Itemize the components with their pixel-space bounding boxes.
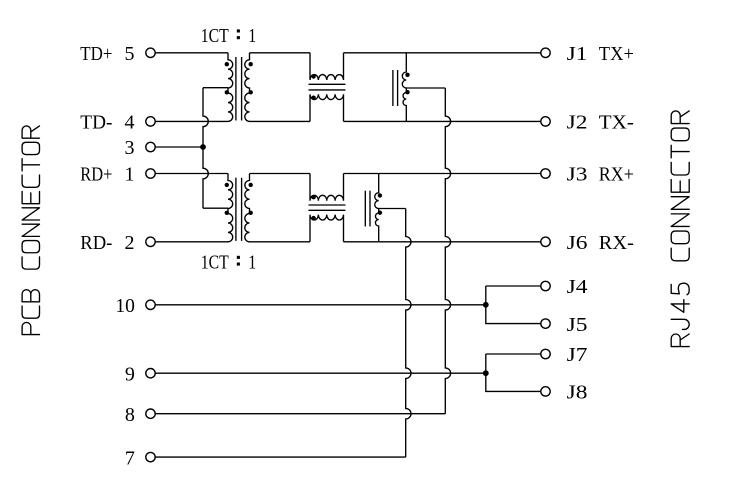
T2 choke top dot: [311, 195, 315, 199]
label 1CT:1 bottom: [201, 252, 256, 274]
T1 choke core: [309, 84, 346, 90]
svg-text:J5: J5: [567, 314, 588, 336]
svg-text:2: 2: [125, 232, 135, 254]
svg-text:J6: J6: [567, 232, 588, 254]
svg-text:1CT: 1CT: [201, 25, 229, 47]
svg-text:RX+: RX+: [599, 164, 634, 186]
junction dot J7/J8: [483, 370, 489, 376]
AT2 autotransformer dot upper: [378, 193, 382, 197]
AT1 autotransformer centre-tap wire: [406, 87, 445, 89]
T1 choke bottom winding: [310, 94, 344, 121]
T1 secondary dot lower: [249, 90, 253, 94]
AT2 autotransformer centre-tap wire: [379, 208, 406, 210]
T2 choke bottom winding: [310, 215, 344, 242]
T2 secondary dot lower: [249, 211, 253, 215]
label 1CT:1 top: [201, 25, 256, 47]
svg-text:TX-: TX-: [599, 112, 634, 134]
svg-text:RX-: RX-: [599, 232, 634, 254]
T1 primary dot lower: [225, 90, 229, 94]
T2 wire secondary top to choke: [250, 173, 311, 175]
J3 RX+ terminal: [541, 164, 634, 186]
T2 core: [236, 178, 242, 241]
wire pin7 to riser: [156, 456, 406, 458]
svg-text:3: 3: [125, 137, 135, 159]
J7/J8 branch: [486, 354, 541, 391]
AT2 autotransformer dot lower: [378, 211, 382, 215]
wire pin9 to J7/J8 junction: [156, 372, 486, 374]
wire choke1 to J1 line: [344, 52, 541, 54]
AT1 autotransformer dot upper: [405, 73, 409, 77]
J8 terminal: [541, 382, 588, 404]
pin 4 TD- terminal: [80, 112, 155, 134]
T1 choke top winding: [310, 53, 344, 80]
pin 1 RD+ terminal: [80, 164, 155, 186]
svg-text:TD-: TD-: [80, 112, 112, 134]
right vertical label RJ45 CONNECTOR: [671, 111, 689, 347]
wire pin8 to riser: [156, 413, 446, 415]
T2 centre-tap wire: [203, 207, 228, 209]
T2 primary winding: [228, 174, 233, 242]
junction dot pin3 centre-tap: [200, 144, 206, 150]
svg-text:RD+: RD+: [80, 164, 112, 186]
svg-text:TD+: TD+: [80, 43, 112, 65]
T1 primary dot upper: [225, 62, 229, 66]
svg-text:1: 1: [248, 252, 256, 274]
centre-tap vertical with hops: [203, 88, 208, 209]
AT1 autotransformer winding: [402, 53, 406, 122]
left vertical label PCB CONNECTOR: [22, 126, 39, 335]
svg-text:8: 8: [125, 404, 135, 426]
wire choke2 bottom to J6 line: [344, 241, 541, 243]
junction dot J4/J5: [483, 302, 489, 308]
wire choke1 bottom to J2 line: [344, 120, 541, 122]
T1 core: [236, 57, 242, 121]
T1 wire secondary bottom to choke: [250, 120, 311, 122]
T1 centre-tap wire: [203, 87, 228, 89]
J5 terminal: [541, 314, 588, 336]
svg-text:J7: J7: [567, 344, 588, 366]
riser AT2 tap to pin7 with hops: [406, 209, 411, 458]
svg-text:9: 9: [125, 363, 135, 385]
pin 5 TD+ terminal: [80, 43, 155, 65]
wire pin1 to T2 primary top: [156, 173, 229, 175]
svg-text:1CT: 1CT: [201, 252, 229, 274]
pin 10 terminal: [115, 295, 155, 317]
AT2 autotransformer core: [365, 191, 370, 227]
AT1 autotransformer dot lower: [405, 90, 409, 94]
T1 secondary winding: [245, 53, 250, 122]
T1 choke top dot: [311, 74, 315, 78]
T1 choke bottom dot: [311, 96, 315, 100]
pin 8 terminal: [125, 404, 155, 426]
pin 9 terminal: [125, 363, 155, 385]
pin 2 RD- terminal: [80, 232, 155, 254]
T2 secondary dot upper: [249, 183, 253, 187]
T2 choke top winding: [310, 174, 344, 201]
svg-text:7: 7: [125, 447, 135, 469]
T2 wire secondary bottom to choke: [250, 241, 311, 243]
AT2 autotransformer winding: [375, 174, 379, 242]
J1 TX+ terminal: [541, 43, 634, 65]
T2 primary dot upper: [225, 183, 229, 187]
wire pin3 to centre-tap node: [156, 146, 204, 148]
wire choke2 to J3 line: [344, 173, 541, 175]
wire pin10 to J4/J5 junction: [156, 304, 486, 306]
wire pin2 to T2 primary bottom: [156, 241, 229, 243]
T1 wire secondary top to choke: [250, 52, 311, 54]
wire pin4 to T1 primary bottom: [156, 120, 229, 122]
J6 RX- terminal: [541, 232, 634, 254]
svg-text:4: 4: [125, 112, 135, 134]
T2 choke core: [309, 205, 346, 210]
J4/J5 branch: [486, 286, 541, 324]
svg-text:1: 1: [248, 25, 256, 47]
svg-text:J8: J8: [567, 382, 588, 404]
svg-text:5: 5: [125, 43, 135, 65]
T2 primary dot lower: [225, 211, 229, 215]
T1 primary winding: [228, 53, 233, 122]
svg-text:J1: J1: [567, 43, 588, 65]
T2 choke bottom dot: [311, 216, 315, 220]
svg-text:TX+: TX+: [599, 43, 634, 65]
riser AT1 tap to pin8 with hops: [445, 88, 450, 414]
svg-text:RD-: RD-: [80, 232, 112, 254]
T1 secondary dot upper: [249, 62, 253, 66]
T2 secondary winding: [245, 174, 250, 242]
J2 TX- terminal: [541, 112, 634, 134]
wire pin5 to T1 primary top: [156, 52, 229, 54]
svg-text:J4: J4: [567, 276, 588, 298]
svg-text:J3: J3: [567, 164, 588, 186]
svg-text:1: 1: [125, 164, 135, 186]
pin 3 terminal: [125, 137, 156, 159]
pin 7 terminal: [125, 447, 155, 469]
AT1 autotransformer core: [393, 70, 398, 106]
svg-text:J2: J2: [567, 112, 588, 134]
J7 terminal: [541, 344, 588, 366]
svg-text:10: 10: [115, 295, 135, 317]
J4 terminal: [541, 276, 588, 298]
